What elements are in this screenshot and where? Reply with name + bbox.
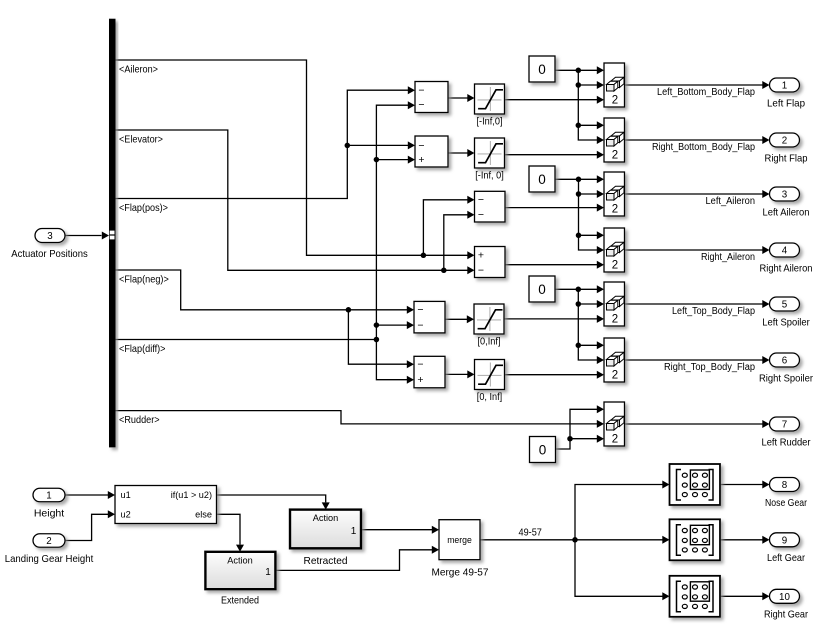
svg-text:else: else xyxy=(195,510,212,520)
node label Flap(pos) xyxy=(119,202,168,214)
mux block Mux1 xyxy=(604,63,625,107)
wire: Aileron from bus to Sum3/Sum4 xyxy=(116,60,475,259)
svg-text:[-Inf, 0]: [-Inf, 0] xyxy=(475,170,504,182)
svg-text:1: 1 xyxy=(46,491,51,502)
svg-text:2: 2 xyxy=(612,204,618,216)
constant block Constant1 value 0 xyxy=(529,56,555,82)
svg-text:Action: Action xyxy=(227,555,253,565)
svg-text:−: − xyxy=(418,99,424,111)
wire: Constant3 zero to Mux5/Mux6 xyxy=(555,285,604,364)
svg-text:<Elevator>: <Elevator> xyxy=(119,134,163,146)
svg-text:2: 2 xyxy=(612,434,618,446)
svg-text:Actuator Positions: Actuator Positions xyxy=(11,248,88,260)
outport 9 Left Gear xyxy=(767,533,805,564)
svg-text:1: 1 xyxy=(782,81,787,92)
wire: Elevator from bus to Sum3/Sum4 xyxy=(116,130,475,274)
mux block Mux2 xyxy=(604,118,625,162)
wire: Sum2 to Saturation2 xyxy=(448,149,475,157)
svg-text:2: 2 xyxy=(612,95,618,107)
sum block Sum2 (-,+) xyxy=(415,136,448,167)
saturation block Saturation1 [-Inf,0] xyxy=(475,84,505,128)
svg-text:Left_Aileron: Left_Aileron xyxy=(706,196,756,207)
outport 1 Left Flap xyxy=(767,78,805,109)
wire: Saturation2 to Mux2 in3 xyxy=(505,151,605,159)
outport 10 Right Gear xyxy=(764,589,808,620)
wire: Mux6 output to outport 6 xyxy=(625,356,770,364)
svg-text:u1: u1 xyxy=(121,490,131,500)
wire: Retracted output to Merge in1 xyxy=(361,526,439,534)
svg-text:1: 1 xyxy=(265,567,271,578)
svg-text:<Rudder>: <Rudder> xyxy=(119,414,160,426)
wire: Saturation4 to Mux6 in3 xyxy=(505,371,605,379)
svg-text:+: + xyxy=(418,154,424,166)
svg-text:−: − xyxy=(417,320,423,332)
wire: Flap(neg) from bus to Sum5/Sum6 xyxy=(116,270,415,368)
sum block Sum3 (-,-) xyxy=(475,191,506,222)
inport 3 Actuator Positions xyxy=(11,229,109,261)
wire: Left Gear selector to outport 9 xyxy=(720,536,770,544)
svg-text:−: − xyxy=(418,140,424,152)
svg-text:2: 2 xyxy=(612,150,618,162)
wire: Mux2 output to outport 2 xyxy=(625,136,770,144)
svg-text:<Flap(pos)>: <Flap(pos)> xyxy=(119,202,168,214)
signal name label Right_Aileron xyxy=(701,252,755,263)
wire: Sum4 to Mux4 in3 xyxy=(505,261,604,269)
svg-text:−: − xyxy=(478,194,484,206)
svg-text:3: 3 xyxy=(47,231,53,242)
svg-text:Merge 49-57: Merge 49-57 xyxy=(432,567,489,579)
svg-text:−: − xyxy=(417,304,423,316)
svg-text:−: − xyxy=(417,359,423,371)
outport 3 Left Aileron xyxy=(763,187,810,218)
node label Elevator xyxy=(119,134,163,146)
wire: Saturation3 to Mux5 in3 xyxy=(504,315,604,323)
wire: Flap(pos) from bus to Sum1/Sum2 xyxy=(116,86,416,198)
svg-text:49-57: 49-57 xyxy=(519,527,543,539)
svg-text:Retracted: Retracted xyxy=(304,555,348,567)
svg-text:[0,Inf]: [0,Inf] xyxy=(478,336,501,348)
wire: Right Gear selector to outport 10 xyxy=(720,592,770,600)
saturation block Saturation2 [-Inf, 0] xyxy=(475,138,505,182)
mux block Mux5 xyxy=(604,282,625,326)
svg-text:<Flap(neg)>: <Flap(neg)> xyxy=(119,274,169,286)
sum block Sum4 (+,-) xyxy=(475,247,506,278)
wire: Nose Gear selector to outport 8 xyxy=(720,481,770,489)
wire: Sum6 to Saturation4 xyxy=(445,370,475,378)
signal name label Right_Top_Body_Flap xyxy=(664,362,756,373)
svg-text:if(u1 > u2): if(u1 > u2) xyxy=(171,490,212,500)
svg-text:Right_Aileron: Right_Aileron xyxy=(701,252,755,263)
selector block Right Gear selector xyxy=(670,576,721,617)
svg-text:−: − xyxy=(478,209,484,221)
wire: Flap(diff) from bus to Sum1/Sum2/Sum5/Sum6 xyxy=(116,101,416,384)
svg-text:Left Flap: Left Flap xyxy=(767,97,805,109)
svg-text:2: 2 xyxy=(782,136,787,147)
svg-text:+: + xyxy=(417,374,423,386)
selector block Nose Gear selector xyxy=(670,464,721,505)
wire: inport 2 Landing Gear Height to If u2 xyxy=(65,510,115,540)
svg-text:merge: merge xyxy=(447,535,472,545)
svg-text:Landing Gear Height: Landing Gear Height xyxy=(5,553,94,565)
wire: Merge output 49-57 to gear Selector blocks xyxy=(480,481,670,601)
bus selector bar xyxy=(109,19,116,448)
constant block Constant2 value 0 xyxy=(529,166,555,192)
selector block Left Gear selector xyxy=(670,519,721,560)
svg-text:2: 2 xyxy=(46,536,51,547)
outport 6 Right Spoiler xyxy=(759,353,813,384)
svg-text:8: 8 xyxy=(782,480,788,491)
wire: Sum1 to Saturation1 xyxy=(448,94,475,102)
svg-text:7: 7 xyxy=(782,420,787,431)
svg-text:Right_Top_Body_Flap: Right_Top_Body_Flap xyxy=(664,362,756,373)
mux block Mux7 xyxy=(604,402,625,446)
svg-text:0: 0 xyxy=(539,442,547,457)
signal name label Left_Bottom_Body_Flap xyxy=(657,87,756,98)
svg-text:Left_Top_Body_Flap: Left_Top_Body_Flap xyxy=(672,306,756,317)
wire: Constant2 zero to Mux3/Mux4 xyxy=(555,175,605,254)
svg-text:+: + xyxy=(478,250,484,262)
constant block Constant4 value 0 xyxy=(530,437,556,463)
svg-text:<Flap(diff)>: <Flap(diff)> xyxy=(119,343,166,355)
saturation block Saturation3 [0,Inf] xyxy=(474,304,504,348)
svg-text:u2: u2 xyxy=(121,510,131,520)
inport 2 Landing Gear Height xyxy=(5,534,94,565)
svg-text:Right Spoiler: Right Spoiler xyxy=(759,372,813,384)
svg-text:6: 6 xyxy=(782,356,788,367)
svg-text:Left Aileron: Left Aileron xyxy=(763,206,810,218)
outport 4 Right Aileron xyxy=(760,243,813,274)
svg-text:2: 2 xyxy=(612,370,618,382)
svg-text:1: 1 xyxy=(351,526,357,537)
wire: Mux5 output to outport 5 xyxy=(625,300,770,308)
wire: Rudder from bus to Mux7 xyxy=(116,411,605,428)
node label Flap(diff) xyxy=(119,343,166,355)
svg-text:Height: Height xyxy=(34,507,64,519)
svg-text:Extended: Extended xyxy=(221,595,259,607)
sum block Sum1 (-,-) xyxy=(415,82,448,113)
svg-text:0: 0 xyxy=(538,282,546,297)
svg-text:<Aileron>: <Aileron> xyxy=(119,64,158,76)
svg-text:Right Gear: Right Gear xyxy=(764,609,808,621)
constant block Constant3 value 0 xyxy=(529,276,555,302)
saturation block Saturation4 [0, Inf] xyxy=(475,360,505,404)
svg-text:Right_Bottom_Body_Flap: Right_Bottom_Body_Flap xyxy=(652,142,756,153)
svg-text:0: 0 xyxy=(538,62,546,77)
svg-text:9: 9 xyxy=(782,535,787,546)
svg-text:2: 2 xyxy=(612,314,618,326)
sum block Sum5 (-,-) xyxy=(414,301,445,333)
mux block Mux4 xyxy=(604,228,625,272)
svg-text:Left Gear: Left Gear xyxy=(767,552,805,564)
merge block Merge 49-57 xyxy=(432,520,489,579)
svg-text:4: 4 xyxy=(782,246,788,257)
wire: inport 1 Height to If u1 xyxy=(65,491,115,499)
svg-text:−: − xyxy=(478,265,484,277)
sum block Sum6 (-,+) xyxy=(414,356,445,388)
wire: If else-output to Extended action port xyxy=(217,514,245,552)
wire: Mux4 output to outport 4 xyxy=(625,246,770,254)
svg-text:[-Inf,0]: [-Inf,0] xyxy=(477,116,503,128)
svg-text:[0, Inf]: [0, Inf] xyxy=(477,391,502,403)
inport 1 Height xyxy=(33,488,65,519)
outport 7 Left Rudder xyxy=(762,417,811,448)
wire: Mux3 output to outport 3 xyxy=(625,190,770,198)
node label Rudder xyxy=(119,414,160,426)
if block u1 u2 xyxy=(115,486,217,524)
svg-text:Action: Action xyxy=(313,513,339,523)
mux block Mux3 xyxy=(604,172,625,216)
wire: If then-output to Retracted action port xyxy=(217,495,330,510)
wire: Mux7 output to outport 7 xyxy=(625,420,770,428)
wire: Constant1 zero to Mux1/Mux2 xyxy=(555,66,604,144)
svg-text:3: 3 xyxy=(782,190,788,201)
outport 8 Nose Gear xyxy=(765,478,807,509)
action subsystem Extended xyxy=(205,552,275,607)
node label Flap(neg) xyxy=(119,274,169,286)
outport 5 Left Spoiler xyxy=(762,297,810,328)
wire: Saturation1 to Mux1 in3 xyxy=(505,96,605,104)
mux block Mux6 xyxy=(604,338,625,382)
signal name label Right_Bottom_Body_Flap xyxy=(652,142,756,153)
wire: Sum5 to Saturation3 xyxy=(445,315,474,323)
signal name label Left_Top_Body_Flap xyxy=(672,306,756,317)
node label Aileron xyxy=(119,64,158,76)
signal name label 49-57 xyxy=(519,527,543,539)
svg-text:5: 5 xyxy=(782,300,788,311)
svg-text:Left Rudder: Left Rudder xyxy=(762,436,811,448)
wire: Sum3 to Mux3 in3 xyxy=(505,204,604,212)
action subsystem Retracted xyxy=(290,510,361,567)
svg-text:0: 0 xyxy=(538,172,546,187)
wire: Mux1 output to outport 1 xyxy=(625,81,770,89)
svg-text:Right Flap: Right Flap xyxy=(765,152,808,164)
wire: Constant4 zero to Mux7 xyxy=(555,405,605,449)
svg-text:−: − xyxy=(418,85,424,97)
svg-text:2: 2 xyxy=(612,260,618,272)
svg-text:Left Spoiler: Left Spoiler xyxy=(762,316,810,328)
svg-text:Right Aileron: Right Aileron xyxy=(760,262,813,274)
svg-text:Nose Gear: Nose Gear xyxy=(765,497,807,509)
wire: Extended output to Merge in2 xyxy=(275,546,439,571)
outport 2 Right Flap xyxy=(765,133,808,164)
svg-text:Left_Bottom_Body_Flap: Left_Bottom_Body_Flap xyxy=(657,87,756,98)
svg-text:10: 10 xyxy=(779,592,790,603)
signal name label Left_Aileron xyxy=(706,196,756,207)
